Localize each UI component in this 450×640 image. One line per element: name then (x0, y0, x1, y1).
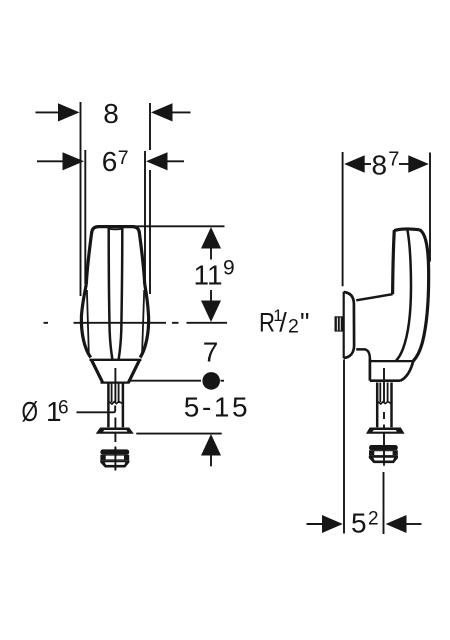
svg-text:/: / (279, 308, 287, 338)
side body: base left edge (369, 359, 372, 381)
threaded stem front: thread root lines (112, 383, 119, 403)
wall flange side: bulged face (344, 292, 354, 358)
valve body front: bulge right outer (140, 284, 148, 358)
dimension 11_9 up arrow (201, 227, 221, 260)
valve body front: bulge left outer (81, 284, 90, 358)
valve body front: cap right edge (139, 232, 145, 285)
svg-text:Ø: Ø (22, 396, 39, 427)
side body: outer back edge (413, 230, 428, 361)
nut front centerline (114, 447, 116, 471)
svg-text:7: 7 (203, 337, 219, 368)
side body: knob left edge (393, 230, 395, 294)
side body: knob top edge (394, 229, 419, 231)
extension line left of dim 8_7 (342, 152, 344, 286)
svg-text:": " (300, 308, 310, 338)
threaded stem side: break zigzag (377, 401, 391, 404)
valve body front: inner contour line left (109, 228, 113, 360)
dimension 5_2 left arrow (307, 515, 343, 533)
extension line right of dim 6_7 (144, 151, 146, 288)
side body: neck top line (356, 294, 392, 300)
svg-text:5: 5 (351, 508, 367, 539)
dimension 6_7 left arrow (37, 152, 84, 170)
note 7 leader line (131, 380, 225, 382)
valve body front: shoulder line (90, 359, 142, 361)
leader line from body top to 11_9 dimension (128, 225, 225, 227)
svg-text:9: 9 (223, 257, 235, 280)
extension line left of dim 8 (80, 102, 82, 296)
dimension 8_7 left arrow (344, 155, 371, 173)
valve body front: inner contour line right (119, 228, 123, 360)
wall line below flange (343, 360, 345, 534)
threaded stem side: thread root lines (380, 383, 387, 403)
svg-text:7: 7 (388, 149, 399, 171)
stem centerline side (383, 368, 385, 442)
wall flange side white slit (372, 430, 396, 432)
svg-text:2: 2 (368, 509, 379, 530)
side body: base bottom edge (370, 379, 400, 382)
svg-text:6: 6 (58, 398, 69, 419)
reference line for 5-15 (136, 433, 221, 435)
threaded stem side: outer walls (377, 383, 391, 428)
nut front: bottom hex (100, 460, 129, 467)
nut front: middle band (100, 455, 129, 461)
nut side: bottom hex (369, 456, 398, 463)
threaded stem front: outer walls (108, 383, 123, 427)
svg-text:7: 7 (118, 147, 129, 169)
extension line right of dim 8 (149, 103, 151, 294)
dimension 8_7 right arrow (399, 155, 429, 173)
valve body front: slot groove at top (109, 228, 123, 231)
dimension 6_7 right arrow (146, 152, 184, 170)
leader line of diameter 1_6 with hook (77, 406, 116, 413)
wall flange side (black trapezoid) (366, 428, 405, 434)
note 7 marker dot (202, 372, 220, 390)
extension line left of dim 6_7 (84, 150, 86, 284)
valve body front: bulge left inner contour (87, 290, 89, 356)
svg-text:8: 8 (103, 98, 119, 129)
svg-text:2: 2 (288, 315, 299, 337)
nut front: top cap bar (100, 449, 129, 454)
threaded nipple R 1/2 (335, 316, 344, 331)
dimension 5_2 right arrow (386, 515, 422, 533)
svg-text:11: 11 (193, 260, 222, 291)
side body: base right curve (400, 361, 413, 381)
dimension 8 left arrow (36, 103, 80, 121)
dimension 8 right arrow (151, 103, 191, 121)
wall flange side: left edge (343, 292, 345, 358)
horizontal centerline dash-dot (44, 322, 228, 324)
valve body front: cone left edge (92, 360, 103, 382)
up arrow for 5-15 (201, 434, 221, 466)
stem centerline front (114, 368, 116, 470)
svg-text:5-15: 5-15 (184, 392, 250, 423)
nut side: middle band (369, 450, 398, 456)
wall flange front (black trapezoid) (96, 428, 134, 434)
nut side: top cap bar (369, 445, 398, 450)
nut side centerline (383, 442, 386, 534)
dimension 11_9 down arrow (201, 290, 221, 322)
side body: shoulder line (370, 360, 413, 362)
threaded stem front: break zigzag (108, 401, 123, 404)
valve body front: bulge right inner contour (142, 290, 144, 356)
valve body front: top dome (92, 227, 139, 233)
svg-text:8: 8 (372, 150, 388, 181)
extension line right of dim 8_7 (429, 153, 431, 262)
svg-text:6: 6 (102, 146, 118, 177)
valve body front: cap left edge (86, 232, 92, 285)
side body: neck bottom line (356, 349, 370, 358)
valve body front: cone right edge (129, 360, 140, 382)
valve body front: cone bottom edge (101, 381, 130, 383)
side body: inner crease (396, 229, 411, 361)
wall flange front white slit (103, 430, 127, 432)
